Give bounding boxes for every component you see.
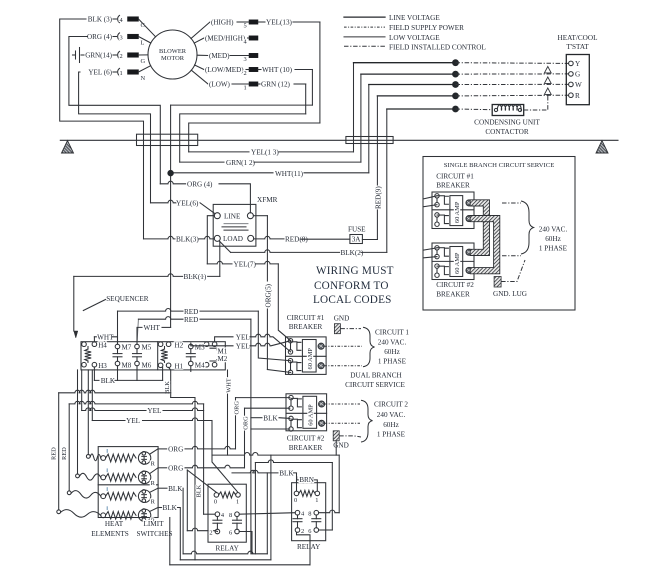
- field wire lower GND to brace: [339, 436, 361, 437]
- relay K2 terminal 6 jog: [319, 529, 333, 531]
- svg-text:ORG (4): ORG (4): [187, 180, 213, 188]
- bottom bus 2: [180, 559, 271, 561]
- svg-text:W: W: [575, 81, 582, 89]
- wire YEL(7) drop to breaker 1: [278, 264, 290, 341]
- svg-text:FUSE: FUSE: [348, 226, 366, 234]
- limit switch LS4: [138, 509, 150, 521]
- transformer LOAD terminal left: [214, 235, 220, 241]
- relay K1 terminal 6 to bus1: [239, 532, 252, 554]
- relay K2 contact 8-6: [314, 510, 319, 515]
- svg-text:FIELD INSTALLED CONTROL: FIELD INSTALLED CONTROL: [389, 43, 486, 51]
- wire motor pin N to motor body: [139, 66, 151, 72]
- wire RED(8) transformer LOAD right to fuse: [254, 236, 284, 239]
- svg-text:CIRCUIT 2: CIRCUIT 2: [374, 401, 408, 409]
- svg-text:2: 2: [120, 53, 123, 60]
- field-installed splice arrows: [547, 70, 549, 75]
- wire BLK(3) from motor C lead: left and down: [60, 19, 144, 239]
- legend field-installed-control sample line: [344, 45, 385, 47]
- svg-text:R: R: [151, 480, 156, 487]
- svg-text:Y: Y: [575, 60, 581, 68]
- sequencer terminal M2b: [212, 362, 217, 367]
- svg-text:BLK: BLK: [164, 381, 171, 394]
- wire YEL(13) riser to junction: [353, 63, 355, 152]
- sequencer terminal H2b: [166, 342, 171, 347]
- svg-text:3: 3: [244, 56, 247, 63]
- contactor coil: [494, 108, 497, 111]
- svg-text:60 AMP: 60 AMP: [454, 252, 461, 274]
- svg-text:LIMIT: LIMIT: [144, 520, 165, 528]
- wire solid to contactor junction: [387, 108, 456, 110]
- svg-text:BLK (3): BLK (3): [88, 16, 113, 24]
- transformer LINE terminal right: [247, 213, 253, 219]
- sequencer divider: [157, 342, 159, 370]
- field wire CB2 bottom terminal: [325, 422, 360, 424]
- svg-text:1: 1: [236, 499, 239, 506]
- wire H1-BLK jog to long drop: [171, 398, 195, 560]
- svg-text:(MED): (MED): [209, 52, 230, 60]
- heat element HE1: [101, 456, 106, 461]
- svg-text:FIELD SUPPLY POWER: FIELD SUPPLY POWER: [389, 24, 464, 32]
- polarized connector block right: [346, 137, 393, 144]
- svg-text:5: 5: [244, 23, 247, 30]
- wire ORG riser A: [235, 398, 237, 449]
- wire BLK heat row3: [150, 488, 158, 492]
- wire WHT lower jumper: [93, 337, 95, 342]
- wire squiggle into heat row1: [87, 370, 89, 455]
- svg-text:M5: M5: [142, 344, 152, 352]
- sequencer terminal M1a: [204, 342, 209, 347]
- svg-text:3: 3: [120, 35, 123, 42]
- limit switch LS1: [138, 452, 150, 464]
- wire YEL(6) to transformer LINE left: [151, 200, 177, 203]
- field wire junction-W to thermostat W: [456, 83, 569, 85]
- svg-text:XFMR: XFMR: [257, 196, 278, 204]
- service brace 240VAC single branch: [502, 203, 521, 256]
- bottom bus 1: [183, 551, 267, 554]
- wire YEL mid upper: [81, 370, 83, 411]
- supply stubs into CB2: [424, 248, 437, 250]
- relay K1 contact 4-2: [215, 512, 220, 517]
- svg-text:(HIGH): (HIGH): [211, 19, 234, 27]
- bus bar CB1-bottom to CB2-bottom hatched: [470, 216, 500, 274]
- sequencer terminal H4b: [92, 342, 97, 347]
- limit switch LS3: [138, 490, 150, 502]
- svg-text:RED: RED: [61, 447, 68, 460]
- svg-text:BLK(1): BLK(1): [184, 273, 207, 281]
- relay K2 coil terminal 0: [294, 491, 299, 496]
- svg-text:BLK(3): BLK(3): [176, 236, 199, 244]
- svg-text:1: 1: [315, 497, 318, 504]
- field wire ground lug to service: [501, 260, 525, 282]
- svg-text:YEL: YEL: [236, 342, 250, 350]
- svg-text:R: R: [151, 499, 156, 506]
- svg-text:BLK: BLK: [263, 414, 278, 422]
- svg-text:DUAL BRANCH: DUAL BRANCH: [350, 372, 401, 380]
- svg-text:ORG (4): ORG (4): [87, 33, 113, 41]
- svg-text:G: G: [141, 58, 146, 65]
- wire RED(9) riser: [376, 96, 378, 240]
- svg-text:LOW VOLTAGE: LOW VOLTAGE: [389, 34, 440, 42]
- motor speed tap (MED/HIGH) lead: [194, 38, 204, 43]
- wire BLK(2) from transformer LOAD left diagonal: [220, 241, 231, 252]
- svg-text:6: 6: [229, 530, 232, 537]
- polarized connector block left: [137, 134, 198, 145]
- heat element HE4: [101, 513, 106, 518]
- svg-text:H4: H4: [98, 341, 107, 349]
- svg-text:M7: M7: [122, 344, 132, 352]
- svg-text:WHT: WHT: [226, 378, 233, 393]
- svg-text:1: 1: [244, 85, 247, 92]
- junction dot WHT(11): [167, 170, 173, 176]
- svg-text:2: 2: [244, 70, 247, 77]
- motor tap terminal 5: [249, 20, 258, 24]
- wire ORG(4) to transformer LINE right: [160, 181, 186, 184]
- motor plug contact 4: [113, 18, 117, 20]
- svg-text:SINGLE BRANCH CIRCUIT SERVICE: SINGLE BRANCH CIRCUIT SERVICE: [444, 162, 555, 169]
- svg-text:YEL(1 3): YEL(1 3): [251, 149, 279, 157]
- wire RED upper drop to CB1: [258, 311, 290, 361]
- ground bus wire: [60, 139, 618, 141]
- svg-text:BLK(2): BLK(2): [341, 249, 364, 257]
- wire WHT to center column: [162, 326, 171, 328]
- wire K2-8 riser: [338, 455, 340, 513]
- svg-text:BLK: BLK: [279, 470, 294, 478]
- wire drop from K2-6 wire: [254, 463, 256, 554]
- junction dot Y circuit: [452, 59, 459, 66]
- svg-text:T'STAT: T'STAT: [566, 43, 589, 51]
- svg-text:RED: RED: [184, 308, 198, 316]
- wire solid to W junction: [369, 84, 456, 86]
- svg-text:RELAY: RELAY: [297, 543, 321, 551]
- wire BLK heat row4: [150, 508, 158, 512]
- field wire CB1 bottom terminal: [324, 365, 362, 367]
- svg-text:L: L: [141, 40, 145, 47]
- wire H1 drop with BLK label: [169, 367, 171, 397]
- wire feed diagonal to relay1 terminal 0: [187, 470, 216, 492]
- svg-text:LOAD: LOAD: [223, 235, 243, 243]
- wire BRN feed to relay K2: [297, 477, 299, 480]
- wire YEL(13) vertical drop: [319, 22, 321, 123]
- svg-text:60Hz: 60Hz: [383, 421, 399, 429]
- sequencer terminal M3: [189, 344, 194, 349]
- svg-text:ORG: ORG: [242, 416, 249, 430]
- wire RED-left vertical 1: [58, 393, 60, 510]
- relay K2 box: [292, 483, 326, 541]
- sequencer terminal M7: [115, 344, 120, 349]
- wire GRN(12) riser to junction: [360, 74, 362, 162]
- svg-text:R: R: [575, 92, 580, 100]
- svg-text:M4: M4: [195, 362, 205, 370]
- legend line-voltage sample line: [344, 16, 385, 18]
- svg-text:CONTACTOR: CONTACTOR: [485, 128, 528, 136]
- wire solid to G junction: [361, 73, 456, 75]
- wire BLK(1) from transformer LOAD left: [219, 241, 221, 276]
- sequencer terminal H1b: [166, 363, 171, 368]
- sequencer labels M1 M2: [210, 348, 217, 350]
- field wire junction-R to thermostat R: [456, 94, 569, 97]
- relay K1 box: [208, 484, 246, 542]
- svg-text:RED: RED: [51, 447, 58, 460]
- motor terminal block pin L: [128, 34, 139, 39]
- wire feed to CB2 terminal 4: [251, 428, 290, 430]
- circuit breaker CB1 (dual): [286, 337, 327, 375]
- svg-text:GRN (12): GRN (12): [261, 81, 291, 89]
- svg-text:CIRCUIT SERVICE: CIRCUIT SERVICE: [345, 381, 405, 389]
- svg-text:BLK: BLK: [168, 485, 183, 493]
- sequencer box: [81, 342, 225, 370]
- ground lug lower hatched: [333, 431, 339, 441]
- svg-text:WHT: WHT: [144, 324, 161, 332]
- svg-text:M8: M8: [122, 362, 132, 370]
- wire ORG heat row2 to CB2: [150, 468, 158, 474]
- wire motor pin G to motor body: [139, 54, 149, 56]
- svg-text:CIRCUIT #2: CIRCUIT #2: [287, 435, 325, 443]
- sequencer heater element right: [161, 349, 167, 361]
- wire BLK jumper from H3: [93, 367, 95, 380]
- svg-text:RED: RED: [184, 316, 198, 324]
- wire WHT riser mid: [227, 370, 229, 455]
- wire K2-6 horizontal to left: [255, 460, 332, 463]
- svg-text:BREAKER: BREAKER: [289, 323, 323, 331]
- fuse F1 3A body: [350, 235, 363, 244]
- motor plug contact 2: [113, 54, 117, 56]
- field wire splice column to contactor line: [547, 96, 549, 110]
- field wire upper GND to brace: [340, 328, 361, 330]
- svg-text:BLK: BLK: [163, 504, 178, 512]
- thermostat terminal R: [569, 93, 574, 98]
- bus bar CB1-top to CB2-top hatched: [470, 200, 489, 256]
- wire WHT center vertical: [170, 105, 172, 327]
- sequencer terminal H1a: [158, 363, 163, 368]
- sequencer terminal H4a: [82, 342, 87, 347]
- transformer LOAD terminal right: [248, 235, 254, 241]
- svg-text:60Hz: 60Hz: [384, 348, 400, 356]
- wire YEL mid lower: [91, 370, 93, 421]
- wire YEL lower drop: [211, 421, 213, 456]
- service brace circuit 2: [361, 400, 373, 442]
- junction dot W circuit: [452, 81, 459, 88]
- motor terminal block pin C: [128, 17, 139, 22]
- svg-text:240 VAC.: 240 VAC.: [378, 338, 407, 346]
- svg-text:2: 2: [209, 530, 212, 537]
- wire K2-8 horizontal: [212, 453, 339, 456]
- svg-text:M3: M3: [195, 344, 205, 352]
- sequencer terminal M6: [135, 361, 140, 366]
- svg-text:SEQUENCER: SEQUENCER: [106, 295, 149, 303]
- svg-text:1: 1: [120, 70, 123, 77]
- wire BLK jumper up to H1: [162, 367, 164, 380]
- motor terminal block pin N: [128, 70, 139, 75]
- thermostat terminal Y: [569, 61, 574, 66]
- svg-text:60 AMP: 60 AMP: [307, 404, 314, 426]
- wire ORG(4) from motor L lead: left and down: [69, 37, 160, 184]
- motor speed tap (MED) lead: [197, 54, 208, 56]
- svg-text:R: R: [151, 460, 156, 467]
- bus3 left riser: [169, 518, 171, 565]
- wire ORG(5) lower segment: [266, 309, 268, 370]
- motor speed tap (LOW/MED) lead: [195, 65, 204, 70]
- relay K1 contact 8-6: [235, 512, 240, 517]
- heat element HE3: [101, 494, 106, 499]
- field wire junction-G to thermostat G: [456, 73, 569, 75]
- svg-text:GND. LUG: GND. LUG: [493, 290, 527, 298]
- sequencer terminal M2a: [204, 362, 209, 367]
- wire YEL(13) return: left to center column: [189, 123, 320, 152]
- motor speed tap (HIGH) lead: [191, 22, 210, 39]
- svg-text:60 AMP: 60 AMP: [454, 201, 461, 223]
- bus3 right riser to relay K2 terminal 2: [297, 532, 311, 565]
- wire fuse to RED(9) riser: [362, 239, 377, 241]
- motor plug contact 1: [113, 71, 117, 73]
- svg-text:1 PHASE: 1 PHASE: [539, 245, 568, 253]
- svg-text:RELAY: RELAY: [216, 545, 240, 553]
- motor tap terminal 3: [249, 53, 258, 57]
- wire solid to Y junction: [354, 62, 456, 64]
- svg-text:CONFORM TO: CONFORM TO: [314, 280, 389, 292]
- svg-text:3A: 3A: [352, 236, 362, 244]
- svg-text:WHT (10): WHT (10): [262, 66, 293, 74]
- svg-text:0: 0: [294, 497, 297, 504]
- arrow into sequencer: [74, 331, 78, 338]
- legend low-voltage sample line: [344, 36, 385, 38]
- sequencer leader line: [83, 300, 105, 311]
- svg-text:WIRING MUST: WIRING MUST: [316, 265, 394, 277]
- transformer core lines: [224, 223, 248, 225]
- svg-text:BLK: BLK: [101, 377, 116, 385]
- svg-text:YEL: YEL: [147, 407, 161, 415]
- svg-text:ORG(5): ORG(5): [264, 283, 272, 307]
- svg-text:SWITCHES: SWITCHES: [137, 530, 173, 538]
- svg-text:8: 8: [308, 510, 311, 517]
- svg-text:GRN(14): GRN(14): [85, 52, 112, 60]
- svg-text:WHT: WHT: [97, 333, 114, 341]
- wire BLK(1) drop to sequencer: [73, 276, 75, 331]
- thermostat terminal W: [569, 82, 574, 87]
- sequencer terminal M8: [115, 361, 120, 366]
- sequencer M8 stub: [117, 366, 119, 381]
- relay K1 coil terminal 0: [214, 493, 219, 498]
- wire YEL from M3 to breaker1: [191, 343, 194, 346]
- svg-text:60 AMP: 60 AMP: [307, 348, 314, 370]
- sequencer contact at x=137: [136, 349, 138, 354]
- svg-text:1 PHASE: 1 PHASE: [377, 430, 406, 438]
- svg-text:YEL(13): YEL(13): [266, 19, 293, 27]
- wire YEL(6) from motor N lead: left and down: [79, 72, 151, 203]
- svg-text:BREAKER: BREAKER: [289, 444, 323, 452]
- svg-text:H3: H3: [98, 362, 107, 370]
- svg-text:YEL(6): YEL(6): [176, 199, 199, 207]
- svg-text:60Hz: 60Hz: [545, 235, 561, 243]
- sequencer terminal H3b: [92, 362, 97, 367]
- wire feed diagonal to relay1 terminal 1: [212, 455, 238, 492]
- svg-text:BLK: BLK: [195, 484, 202, 497]
- circuit breaker CB2 (single branch): [432, 243, 474, 280]
- junction dot contactor circuit: [452, 106, 459, 113]
- wire RED-left vertical 2: [68, 404, 70, 491]
- svg-text:CIRCUIT #2: CIRCUIT #2: [436, 281, 474, 289]
- wire BLK(2) riser: [386, 109, 388, 252]
- svg-text:ELEMENTS: ELEMENTS: [91, 530, 129, 538]
- relay K2 coil: [299, 490, 315, 496]
- junction dot G circuit: [452, 71, 459, 78]
- svg-text:GND: GND: [334, 314, 350, 322]
- svg-text:LINE: LINE: [224, 212, 241, 220]
- svg-text:HEAT: HEAT: [105, 520, 124, 528]
- ground lug upper hatched: [334, 324, 340, 334]
- circuit breaker CB2 (dual): [286, 394, 327, 431]
- wire YEL(7): [207, 261, 232, 264]
- svg-text:H2: H2: [175, 341, 184, 349]
- thermostat terminal G: [569, 72, 574, 77]
- wire GRN(12) return: left to center column: [180, 114, 306, 162]
- wire WHT(11) riser to junction: [368, 85, 370, 173]
- ground symbol at GRN(14) lead: [81, 54, 84, 56]
- wire BLK breaker2 feed: [251, 417, 262, 419]
- wire YEL upper drop to relay K1 terminal 4: [203, 404, 205, 514]
- svg-text:LINE VOLTAGE: LINE VOLTAGE: [389, 14, 440, 22]
- svg-text:GRN(1 2): GRN(1 2): [226, 159, 256, 167]
- svg-text:YEL(7): YEL(7): [234, 261, 257, 269]
- wire RED-left lower horizontal: [69, 401, 203, 404]
- sequencer terminal M4: [189, 361, 194, 366]
- svg-text:MOTOR: MOTOR: [161, 55, 185, 62]
- svg-text:M6: M6: [142, 362, 152, 370]
- svg-text:8: 8: [229, 512, 232, 519]
- svg-text:M2: M2: [218, 355, 228, 363]
- svg-text:CIRCUIT 1: CIRCUIT 1: [375, 328, 409, 336]
- heat elements box: [98, 447, 158, 518]
- relay K1 coil: [219, 492, 236, 498]
- wire ORG riser B: [244, 408, 246, 468]
- heat element HE2: [101, 475, 106, 480]
- relay K1 coil terminal 1: [236, 493, 241, 498]
- wire relay K2 BLK feed: [232, 470, 278, 473]
- motor speed tap (LOW) lead: [191, 70, 208, 84]
- wire ORG(5) from transformer LINE right: [253, 215, 267, 217]
- ground lug hatched: [494, 277, 501, 288]
- wire GRN(12) vertical drop: [305, 84, 307, 114]
- wire motor pin L to motor body: [139, 37, 151, 44]
- field wire junction to contactor: [456, 108, 493, 111]
- wire squiggle into heat row3: [67, 491, 71, 495]
- svg-text:N: N: [141, 75, 146, 82]
- svg-text:2: 2: [301, 528, 304, 535]
- legend field-supply-power sample line: [344, 26, 385, 28]
- wire RED lower from M5: [137, 319, 138, 344]
- svg-text:240 VAC.: 240 VAC.: [377, 411, 406, 419]
- svg-text:ORG: ORG: [168, 446, 183, 454]
- wire relay K1 terminal 0 feed vertical: [186, 470, 188, 531]
- field wire junction-Y to thermostat Y: [456, 62, 569, 65]
- svg-text:(LOW/MED): (LOW/MED): [205, 66, 244, 74]
- wire WHT(10) return: left to center column: [171, 104, 313, 106]
- wire YEL from M1 to breaker1: [215, 337, 233, 342]
- svg-text:HEAT/COOL: HEAT/COOL: [558, 34, 598, 42]
- svg-text:(LOW): (LOW): [209, 81, 231, 89]
- svg-text:CIRCUIT #1: CIRCUIT #1: [436, 172, 474, 180]
- svg-text:ORG: ORG: [168, 465, 183, 473]
- wire relay K1 terminal 2 horizontal: [187, 528, 217, 531]
- circuit breaker CB1 (single branch): [432, 192, 474, 229]
- wire motor pin C to motor body: [139, 19, 156, 37]
- svg-text:CIRCUIT #1: CIRCUIT #1: [287, 314, 325, 322]
- relay K2 contact 4-2: [295, 510, 300, 515]
- wire WHT from M5 up: [137, 327, 142, 344]
- single branch circuit service enclosure: [423, 157, 575, 311]
- svg-text:BREAKER: BREAKER: [436, 291, 470, 299]
- condensing unit contactor coil box: [492, 105, 524, 116]
- svg-text:WHT(11): WHT(11): [275, 170, 304, 178]
